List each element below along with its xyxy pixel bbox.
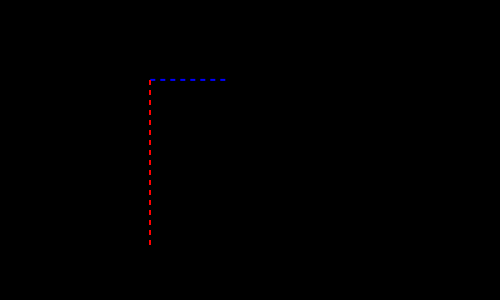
blue dashed horizontal guide line (150, 79, 225, 81)
red dashed vertical guide line (149, 80, 151, 245)
